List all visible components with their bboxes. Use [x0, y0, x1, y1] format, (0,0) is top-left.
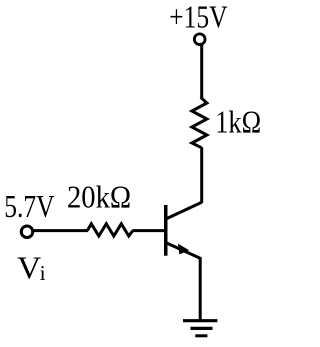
transistor Q1 collector lead [166, 202, 202, 219]
svg-text:i: i [40, 261, 46, 285]
svg-text:+15V: +15V [169, 0, 228, 34]
svg-text:V: V [17, 251, 41, 286]
svg-text:1kΩ: 1kΩ [215, 105, 261, 140]
wire supply to R1 [200, 45, 203, 99]
ground bar 2 [191, 327, 213, 330]
transistor Q1 emitter arrow [178, 244, 189, 255]
ground bar 3 [195, 334, 207, 337]
terminal Vi input [21, 226, 33, 238]
resistor R2 20k [87, 224, 133, 236]
wire Vi to R2 [33, 229, 88, 232]
svg-text:20kΩ: 20kΩ [67, 180, 131, 215]
wire emitter to ground [199, 257, 202, 320]
wire R1 to collector [200, 147, 203, 203]
resistor R1 1k [192, 98, 207, 148]
svg-text:5.7V: 5.7V [4, 189, 55, 224]
wire R2 to base [132, 229, 164, 232]
transistor Q1 base bar [164, 205, 168, 256]
transistor Q1 emitter lead [166, 243, 201, 259]
terminal +15V [194, 34, 205, 45]
ground bar 1 [183, 319, 217, 322]
